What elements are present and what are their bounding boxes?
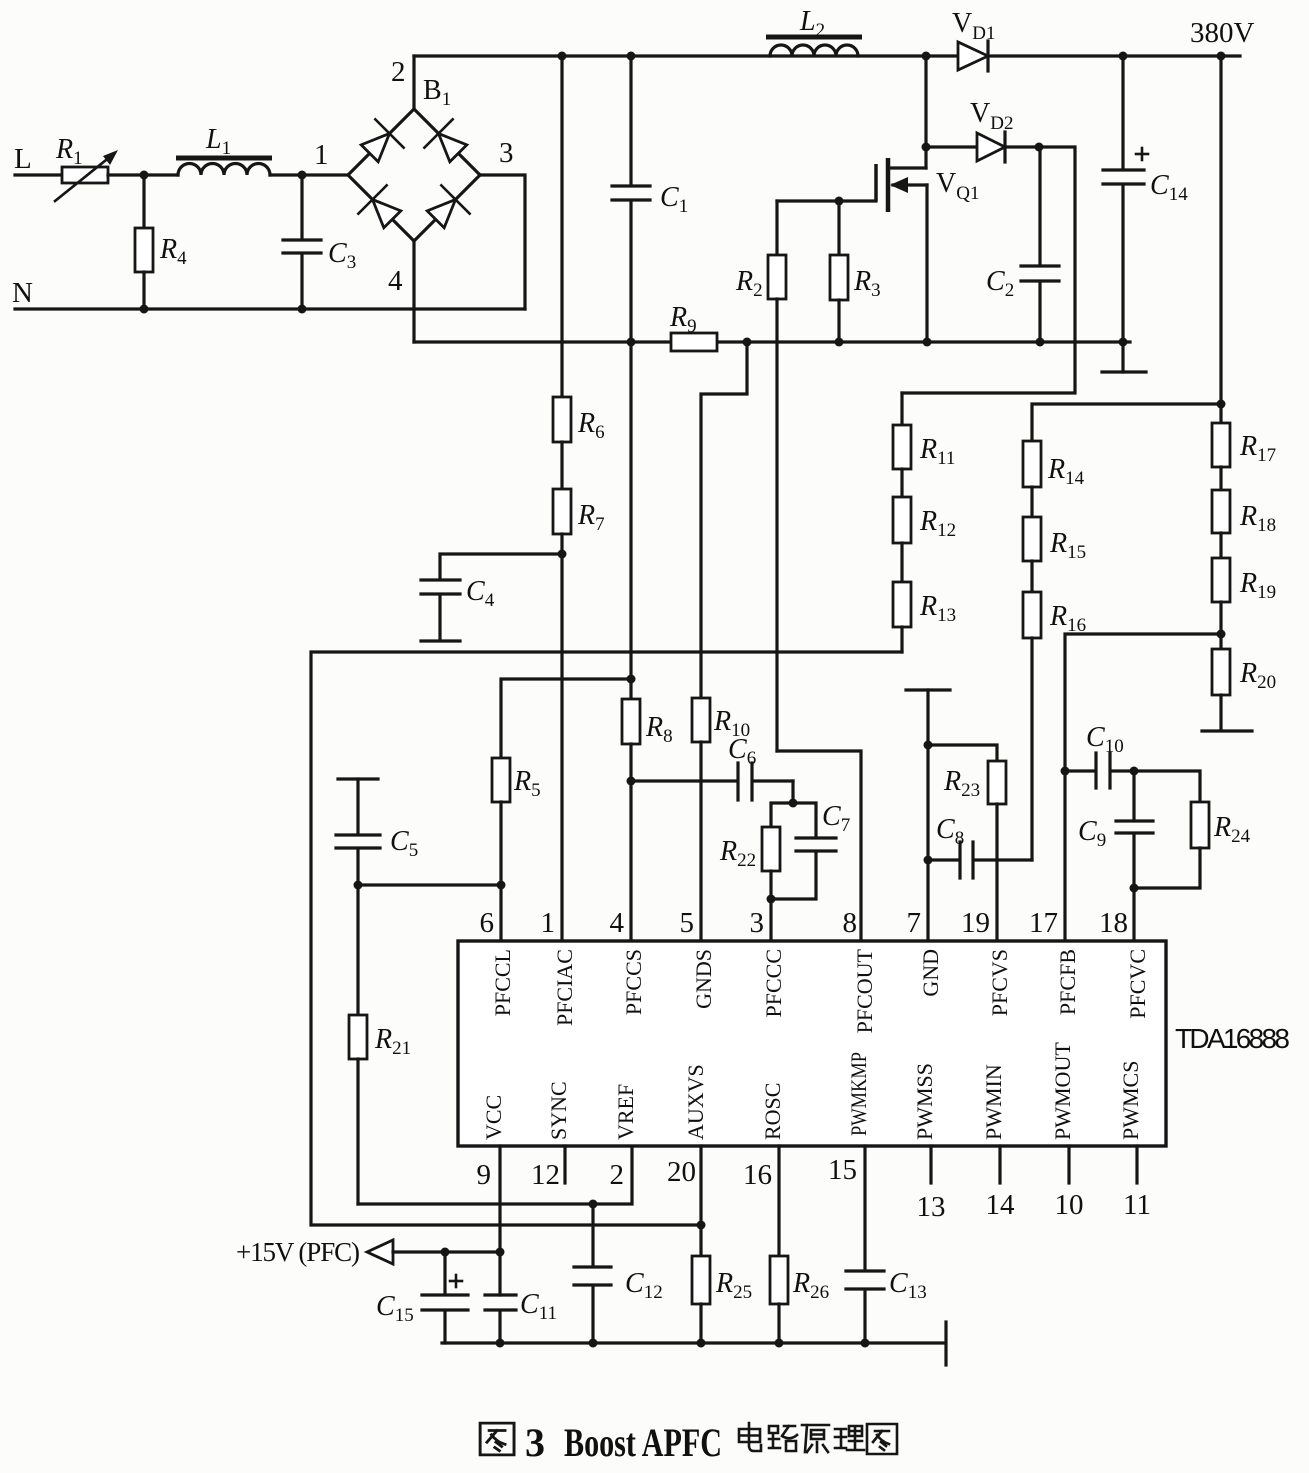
svg-text:PWMCS: PWMCS	[1118, 1061, 1143, 1140]
capacitor C14 (electrolytic)	[1103, 56, 1148, 372]
resistor R21	[349, 885, 367, 1204]
op-amp U1 TDA16888 IC body	[458, 941, 1166, 1146]
junction top rail / C1 line	[627, 52, 636, 61]
resistor R14	[1023, 441, 1041, 487]
bridge diode lower-right	[422, 185, 470, 233]
svg-text:C6: C6	[728, 734, 756, 769]
svg-text:L2: L2	[799, 6, 825, 41]
junction rail / R10 jog	[743, 338, 752, 347]
resistor R5	[492, 758, 510, 941]
svg-text:ROSC: ROSC	[760, 1083, 785, 1140]
diode VD1	[958, 41, 988, 71]
svg-text:R17: R17	[1239, 431, 1276, 466]
svg-text:R12: R12	[919, 506, 956, 541]
capacitor C1	[612, 56, 650, 342]
junction rail / C12	[589, 1339, 598, 1348]
junction C3 bottom on N	[298, 305, 307, 314]
svg-text:PFCVS: PFCVS	[987, 949, 1012, 1016]
svg-text:PFCVC: PFCVC	[1125, 949, 1150, 1019]
svg-text:R21: R21	[374, 1024, 411, 1059]
GND stub terminal	[906, 690, 950, 941]
svg-text:R11: R11	[919, 434, 955, 469]
svg-text:12: 12	[531, 1159, 560, 1191]
svg-text:R25: R25	[715, 1268, 752, 1303]
junction top rail / 380V line	[1217, 52, 1226, 61]
bridge B1 arms	[348, 109, 480, 241]
svg-text:GNDS: GNDS	[691, 949, 716, 1009]
resistor R23	[928, 745, 1006, 941]
capacitor C7	[771, 803, 836, 899]
resistor R7	[553, 442, 571, 941]
resistor R9	[671, 333, 717, 351]
svg-text:PFCCS: PFCCS	[621, 949, 646, 1015]
svg-text:380V: 380V	[1190, 17, 1255, 49]
bridge diode upper-left	[356, 119, 404, 167]
junction rail / C1-R8 line	[627, 338, 636, 347]
resistor R2	[768, 201, 786, 751]
svg-text:R3: R3	[853, 266, 881, 301]
svg-text:R24: R24	[1213, 812, 1251, 847]
svg-text:VCC: VCC	[481, 1095, 506, 1140]
svg-text:14: 14	[986, 1189, 1016, 1221]
svg-text:6: 6	[480, 907, 495, 939]
svg-text:PFCFB: PFCFB	[1055, 949, 1080, 1015]
bridge diode lower-left	[358, 185, 406, 233]
wire R9 to R10 jog	[701, 342, 747, 698]
resistor R4	[135, 175, 153, 309]
svg-text:1: 1	[541, 907, 556, 939]
pin 11 stub	[1135, 1146, 1138, 1183]
ground bar right end	[944, 1322, 947, 1365]
resistor R1 (variable)	[55, 150, 118, 201]
svg-text:PFCOUT: PFCOUT	[852, 948, 877, 1033]
svg-text:3: 3	[750, 907, 765, 939]
junction GND stub / C8	[924, 856, 933, 865]
pin 12 stub	[563, 1146, 566, 1183]
svg-text:L: L	[14, 143, 32, 175]
svg-text:AUXVS: AUXVS	[683, 1064, 708, 1140]
svg-text:C11: C11	[520, 1289, 557, 1324]
wire R5 branch	[501, 679, 631, 758]
wire bridge node4 down	[412, 241, 415, 342]
resistor R13	[893, 543, 911, 652]
svg-text:C7: C7	[822, 801, 850, 836]
capacitor C4	[421, 554, 562, 641]
wire C6 down to R22/C7 node	[791, 781, 794, 803]
svg-text:PFCCL: PFCCL	[490, 949, 515, 1016]
svg-text:R26: R26	[792, 1268, 829, 1303]
wire node3 to N	[480, 175, 525, 309]
caption hanzi li	[835, 1426, 864, 1450]
capacitor C2	[1021, 147, 1059, 342]
resistor R24	[1134, 771, 1209, 888]
transistor VQ1 (MOSFET)	[777, 56, 927, 342]
svg-text:18: 18	[1099, 907, 1128, 939]
junction PFCFB line / C10 branch	[1061, 767, 1070, 776]
junction C15 top	[441, 1248, 450, 1257]
junction R22/C7 top	[789, 799, 798, 808]
junction rail / R25	[697, 1339, 706, 1348]
svg-text:17: 17	[1029, 907, 1058, 939]
svg-text:R16: R16	[1049, 601, 1086, 636]
svg-text:R7: R7	[577, 500, 605, 535]
svg-text:2: 2	[610, 1159, 625, 1191]
caption hanzi yuan	[802, 1425, 829, 1452]
caption figure 3	[480, 1420, 897, 1465]
resistor R8	[622, 342, 640, 941]
svg-text:R20: R20	[1239, 658, 1276, 693]
junction R8 line / C6 branch	[627, 777, 636, 786]
svg-text:20: 20	[667, 1156, 696, 1188]
resistor R17	[1212, 423, 1230, 467]
capacitor C8	[928, 842, 1032, 878]
junction AUXVS pin20 / R25 / feedback wire	[697, 1221, 706, 1230]
pin 10 stub	[1067, 1146, 1070, 1183]
svg-text:C2: C2	[986, 266, 1014, 301]
junction R8 line / R5 branch	[627, 675, 636, 684]
ground below C14	[1102, 370, 1146, 373]
wire R13 bottom long feedback run	[311, 652, 902, 1225]
svg-text:C9: C9	[1078, 816, 1106, 851]
svg-text:C10: C10	[1086, 722, 1124, 757]
resistor R11	[893, 393, 911, 469]
svg-text:13: 13	[917, 1191, 946, 1223]
junction GND stub / R23	[924, 741, 933, 750]
junction VD2 branch on drain	[922, 143, 931, 152]
junction 380V line / R14 branch	[1217, 400, 1226, 409]
junction rail / C13	[861, 1339, 870, 1348]
svg-text:R8: R8	[645, 712, 673, 747]
junction pin6 line	[497, 881, 506, 890]
resistor R10	[692, 698, 710, 941]
svg-text:10: 10	[1055, 1189, 1084, 1221]
wire bottom ground rail	[442, 1341, 944, 1344]
junction rail / R3 bottom	[835, 338, 844, 347]
svg-text:9: 9	[477, 1159, 492, 1191]
+15V arrow terminal	[367, 1240, 393, 1264]
svg-text:R18: R18	[1239, 501, 1276, 536]
svg-text:C1: C1	[660, 182, 688, 217]
junction C12 tap	[589, 1200, 598, 1209]
resistor R3	[830, 201, 848, 342]
svg-text:R5: R5	[513, 766, 541, 801]
capacitor C9	[1116, 771, 1153, 888]
wire pin 3 lead	[769, 899, 772, 941]
svg-text:R23: R23	[943, 766, 980, 801]
resistor R18	[1212, 467, 1230, 533]
wire PFCOUT pin 8 to gate line	[777, 751, 861, 941]
svg-text:+15V (PFC): +15V (PFC)	[236, 1237, 360, 1267]
svg-text:C15: C15	[376, 1291, 414, 1326]
svg-text:PWMIN: PWMIN	[981, 1064, 1006, 1140]
wire C5 to PFCCL pin 6 line	[358, 883, 501, 886]
wire 380V right line	[1219, 56, 1222, 423]
caption hanzi dian	[739, 1423, 761, 1451]
junction C5 / R21	[354, 881, 363, 890]
svg-text:11: 11	[1123, 1189, 1151, 1221]
ground below R20	[1202, 729, 1252, 732]
caption hanzi tu (1)	[480, 1423, 514, 1455]
wire R14 branch	[1032, 404, 1221, 441]
svg-text:19: 19	[961, 907, 990, 939]
junction top rail / C14	[1119, 52, 1128, 61]
svg-text:C8: C8	[936, 814, 964, 849]
svg-text:C4: C4	[466, 576, 495, 611]
svg-text:VREF: VREF	[613, 1084, 638, 1140]
wire top DC rail	[414, 54, 1240, 57]
svg-text:B1: B1	[423, 75, 451, 110]
resistor R22	[762, 803, 793, 899]
wire L1 to bridge node 1	[270, 173, 348, 176]
svg-text:PWMOUT: PWMOUT	[1050, 1042, 1075, 1140]
resistor R20	[1212, 649, 1230, 730]
svg-text:GND: GND	[918, 949, 943, 997]
capacitor C13	[846, 1146, 884, 1343]
svg-text:C14: C14	[1150, 170, 1188, 205]
junction rail / C11	[496, 1339, 505, 1348]
capacitor C3	[283, 175, 321, 309]
junction R4 bottom on N	[140, 305, 149, 314]
svg-text:PWMKMP: PWMKMP	[846, 1052, 871, 1136]
junction rail / C14 bottom	[1119, 338, 1128, 347]
svg-text:4: 4	[388, 265, 403, 297]
junction top rail / VQ1 drain	[922, 52, 931, 61]
diode VD2	[926, 132, 1039, 162]
junction R7 / C4 branch	[558, 550, 567, 559]
junction VD2 cathode / C2	[1035, 143, 1044, 152]
inductor L2	[766, 37, 862, 56]
capacitor C6	[631, 763, 793, 800]
pin 13 stub	[929, 1146, 932, 1183]
svg-text:PFCIAC: PFCIAC	[552, 949, 577, 1026]
bridge diode upper-right	[424, 119, 472, 167]
svg-text:PFCCC: PFCCC	[761, 949, 786, 1018]
wire +15V to VCC	[393, 1250, 500, 1253]
junction VCC / +15V	[496, 1248, 505, 1257]
junction C10 / C9 / R24	[1130, 767, 1139, 776]
svg-text:VD2: VD2	[970, 98, 1013, 134]
capacitor C15 (electrolytic)	[422, 1252, 468, 1343]
wire bridge node2 up	[412, 56, 415, 109]
capacitor C12	[574, 1204, 611, 1343]
svg-text:4: 4	[610, 907, 625, 939]
inductor L1	[176, 158, 272, 175]
resistor R16	[1023, 561, 1041, 860]
svg-text:7: 7	[907, 907, 922, 939]
junction rail / C2 bottom	[1036, 338, 1045, 347]
svg-text:C5: C5	[390, 826, 418, 861]
svg-text:R15: R15	[1049, 528, 1086, 563]
svg-text:R19: R19	[1239, 568, 1276, 603]
svg-text:3: 3	[525, 1420, 545, 1465]
capacitor C11	[485, 1295, 516, 1343]
svg-text:C3: C3	[328, 238, 356, 273]
junction rail / R26	[775, 1339, 784, 1348]
svg-text:8: 8	[843, 907, 858, 939]
resistor R26	[770, 1146, 788, 1343]
wire L input	[15, 173, 62, 176]
wire N line	[15, 307, 525, 310]
junction rail / VQ1 source	[923, 338, 932, 347]
resistor R25	[692, 1146, 710, 1343]
svg-text:Boost APFC: Boost APFC	[564, 1420, 722, 1465]
junction R22/C7 bottom on pin 3	[767, 895, 776, 904]
junction R19/R20 tap	[1217, 630, 1226, 639]
svg-text:C13: C13	[889, 1268, 927, 1303]
capacitor C5	[336, 779, 380, 885]
wire pin 18 lead	[1132, 888, 1135, 941]
svg-text:C12: C12	[625, 1268, 663, 1303]
junction gate / R3	[835, 197, 844, 206]
wire tap to PFCFB pin 17	[1065, 634, 1221, 941]
svg-text:PWMSS: PWMSS	[912, 1063, 937, 1140]
svg-text:R22: R22	[719, 836, 756, 871]
resistor R6	[553, 56, 571, 442]
junction C3 top	[298, 171, 307, 180]
svg-text:VD1: VD1	[952, 8, 995, 44]
svg-text:N: N	[12, 277, 33, 309]
svg-text:SYNC: SYNC	[546, 1081, 571, 1140]
svg-text:15: 15	[828, 1154, 857, 1186]
svg-text:R9: R9	[669, 302, 697, 337]
junction R4 top	[140, 171, 149, 180]
wire VD2 cathode to R11 chain	[902, 147, 1075, 393]
svg-text:R14: R14	[1047, 454, 1085, 489]
svg-text:5: 5	[680, 907, 695, 939]
resistor R15	[1023, 487, 1041, 561]
wire lower DC rail	[414, 340, 1130, 343]
svg-text:16: 16	[743, 1159, 772, 1191]
svg-text:1: 1	[314, 139, 329, 171]
svg-text:R1: R1	[55, 134, 83, 169]
svg-text:TDA16888: TDA16888	[1175, 1023, 1290, 1054]
wire VCC pin 9 down	[498, 1146, 501, 1295]
wire R1 to L1	[108, 173, 178, 176]
svg-text:R13: R13	[919, 591, 956, 626]
junction C9/R24 bottom	[1130, 884, 1139, 893]
capacitor C10	[1065, 753, 1134, 788]
resistor R19	[1212, 533, 1230, 649]
pin 14 stub	[998, 1146, 1001, 1183]
svg-text:3: 3	[499, 137, 514, 169]
caption hanzi lu	[769, 1426, 797, 1451]
svg-text:R6: R6	[577, 408, 605, 443]
caption hanzi tu (2)	[867, 1424, 897, 1454]
svg-text:VQ1: VQ1	[936, 168, 979, 204]
wire R21 to VREF pin 2	[358, 1146, 632, 1204]
svg-text:L1: L1	[205, 124, 231, 159]
svg-text:R2: R2	[735, 266, 763, 301]
svg-text:2: 2	[391, 56, 406, 88]
svg-text:R4: R4	[159, 234, 187, 269]
junction top rail / R6 line	[558, 52, 567, 61]
resistor R12	[893, 469, 911, 543]
